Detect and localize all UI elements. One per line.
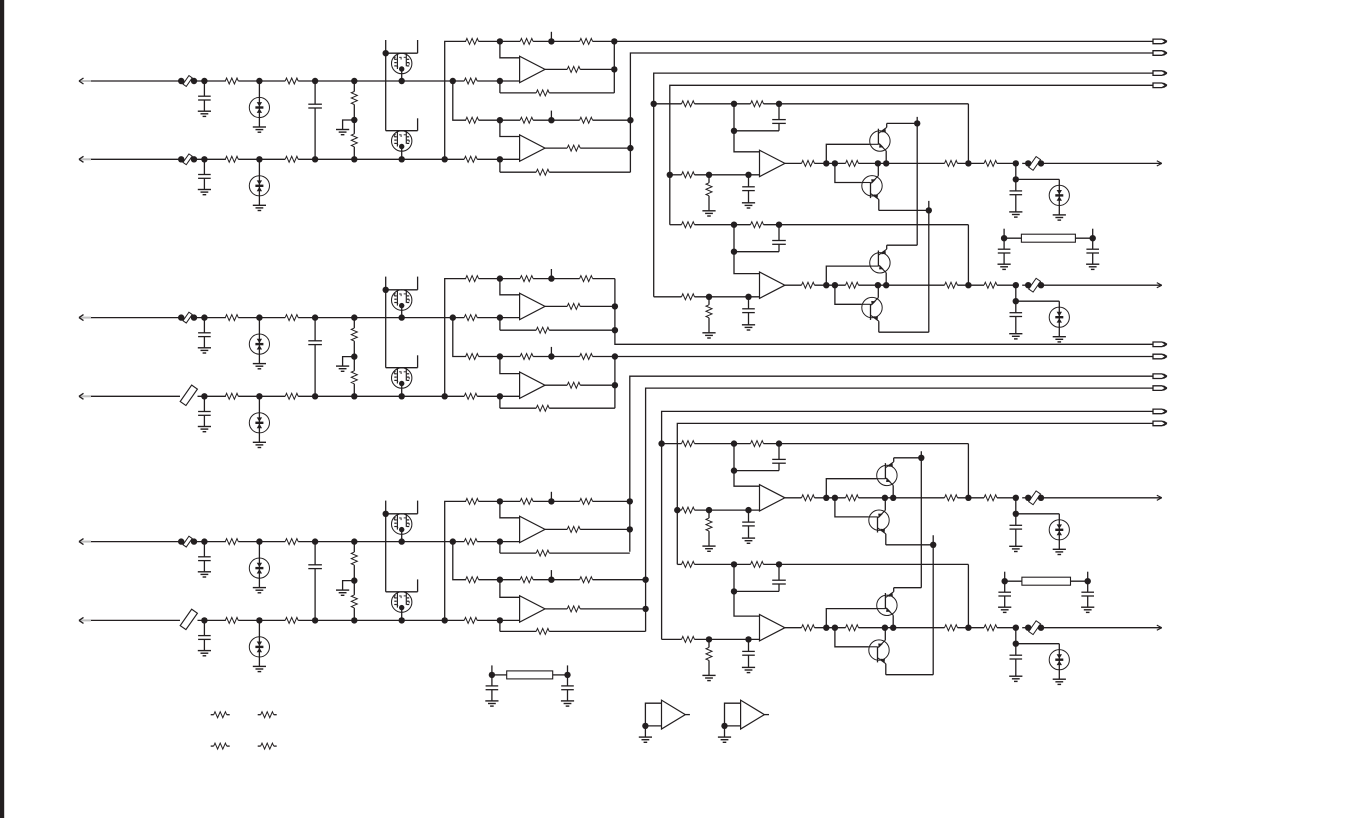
ferrite bead FBoD2 bbox=[1029, 278, 1041, 292]
op-amp UA1 bbox=[520, 56, 545, 82]
diode array DB2 bbox=[256, 393, 262, 399]
wire rail2A a bbox=[479, 119, 520, 121]
wire noninv E2 a bbox=[695, 638, 760, 640]
wire out line D2 bbox=[1041, 284, 1162, 286]
output arrow OUTD2 bbox=[1157, 283, 1162, 286]
capacitor CB1a bbox=[201, 314, 207, 320]
wire fb D2 bbox=[967, 225, 969, 286]
wire out D2 c bbox=[859, 284, 945, 286]
wire inv D1 bbox=[734, 104, 760, 152]
input arrow INB1 bbox=[80, 317, 91, 319]
resistor RE2a bbox=[682, 561, 695, 567]
wire rail D2 a bbox=[695, 224, 751, 226]
wire noninv E1 bbox=[677, 509, 681, 511]
transistor QE2p bbox=[869, 640, 889, 660]
wire C1 seg2 bbox=[238, 541, 285, 543]
resistor RCr1a bbox=[466, 498, 479, 504]
ferrite bead FBA1 bbox=[183, 76, 192, 87]
wire npn rail E bbox=[920, 451, 922, 587]
resistor divider RBd bbox=[351, 314, 357, 320]
wire C2 seg1 bbox=[198, 619, 226, 621]
filter FL1 bbox=[1004, 237, 1021, 239]
wire input line C2 bbox=[91, 619, 180, 621]
connector J7 bbox=[1153, 374, 1166, 379]
resistor RE1o2 bbox=[846, 495, 859, 501]
resistor RC1c bbox=[464, 539, 477, 545]
wire B1 seg3 bbox=[298, 317, 464, 319]
wire out line D1 bbox=[1041, 162, 1162, 164]
wire netB1 bus bbox=[615, 279, 1153, 345]
resistor RC1b bbox=[285, 539, 298, 545]
ferrite bead FBoE1 bbox=[1029, 491, 1041, 505]
wire fb E1 bbox=[967, 444, 969, 498]
capacitor CAx bbox=[312, 78, 318, 84]
resistor RBo1 bbox=[567, 303, 580, 309]
ferrite bead FBA2 bbox=[183, 154, 192, 165]
wire rail2B riser bbox=[450, 314, 456, 320]
resistor RE2o4 bbox=[984, 625, 997, 631]
capacitor CoD2 bbox=[1015, 285, 1017, 301]
wire netE2 bus bbox=[677, 423, 1153, 564]
wire out net D1 bbox=[1013, 160, 1019, 166]
wire netD2 bus bbox=[670, 85, 1153, 224]
wire op1C out bbox=[545, 528, 567, 530]
resistor RCr1b bbox=[520, 498, 533, 504]
wire out E1 c bbox=[859, 497, 945, 499]
mosfet switch QA1 bbox=[385, 40, 387, 53]
wire A1 seg4 bbox=[477, 80, 519, 82]
transistor QD2p bbox=[862, 297, 882, 317]
mosfet switch QB1 bbox=[385, 277, 387, 290]
wire rail1A c bbox=[593, 40, 615, 42]
op-amp UB1 bbox=[520, 293, 545, 319]
resistor divider RCd bbox=[351, 538, 357, 544]
diode array DoE1 bbox=[1016, 513, 1060, 515]
resistor RAr1a bbox=[466, 38, 479, 44]
page border bar bbox=[0, 0, 4, 818]
resistor RD1g bbox=[708, 175, 710, 183]
connector J3 bbox=[1153, 71, 1166, 76]
input arrow INA2 bbox=[80, 158, 91, 160]
capacitor CA1a bbox=[201, 78, 207, 84]
wire out E2 a bbox=[785, 627, 802, 629]
wire inv E2 bbox=[734, 564, 760, 616]
resistor RB2b bbox=[285, 393, 298, 399]
buffer amp U7 bbox=[645, 703, 661, 726]
wire B1 seg1 bbox=[194, 317, 226, 319]
wire noninv D1 bbox=[670, 174, 682, 176]
wire gate bus B bbox=[385, 290, 387, 368]
resistor RCr2a bbox=[466, 577, 479, 583]
wire out D2 b bbox=[815, 284, 846, 286]
wire input line B1 bbox=[91, 317, 181, 319]
resistor RD2b bbox=[751, 222, 764, 228]
wire input line A2 bbox=[91, 158, 181, 160]
resistor RA2c bbox=[464, 156, 477, 162]
wire out net D2 bbox=[1013, 282, 1019, 288]
transistor QD2n bbox=[870, 253, 890, 273]
wire outA1 to connector bbox=[614, 40, 1153, 42]
ferrite bead FBB2 bbox=[180, 385, 197, 405]
wire out D1 a bbox=[785, 162, 802, 164]
resistor RBr2c bbox=[580, 354, 593, 360]
wire out D1 c bbox=[859, 162, 945, 164]
op-amp UC1 bbox=[520, 516, 545, 542]
connector J10 bbox=[1153, 421, 1166, 426]
wire inv D2 bbox=[734, 225, 760, 274]
mosfet switch QA2 bbox=[417, 118, 419, 130]
capacitor CBx bbox=[312, 314, 318, 320]
resistor RA1a bbox=[225, 78, 238, 84]
wire out D1 b bbox=[815, 162, 846, 164]
connector J9 bbox=[1153, 409, 1166, 414]
wire netB2 bus bbox=[614, 357, 616, 409]
connector J4 bbox=[1153, 83, 1166, 88]
resistor RAf2 bbox=[497, 156, 503, 162]
resistor RD2g bbox=[708, 297, 710, 305]
wire rail E1 a bbox=[695, 443, 751, 445]
transistor QE1p bbox=[869, 510, 889, 530]
wire out E2 d bbox=[958, 627, 985, 629]
diode array DC1 bbox=[256, 538, 262, 544]
resistor RD1o1 bbox=[802, 160, 815, 166]
resistor RB1b bbox=[285, 315, 298, 321]
resistor RD1o3 bbox=[945, 160, 958, 166]
resistor RBr2a bbox=[466, 354, 479, 360]
capacitor CE2g bbox=[748, 639, 750, 651]
wire rail D1 bbox=[654, 103, 682, 105]
resistor RAr2c bbox=[580, 117, 593, 123]
resistor RC2c bbox=[464, 617, 477, 623]
wire rail2A riser bbox=[450, 78, 456, 84]
wire rail1B a bbox=[479, 278, 520, 280]
wire B1 seg4 bbox=[477, 317, 519, 319]
resistor RBf2 bbox=[497, 393, 503, 399]
diode array DA1 bbox=[256, 78, 262, 84]
input arrow INC1 bbox=[80, 541, 91, 543]
wire op1A inv bbox=[500, 41, 520, 57]
diode array DoE2 bbox=[1016, 643, 1060, 645]
wire out line E2 bbox=[1041, 627, 1162, 629]
wire rail E1 bbox=[662, 443, 682, 445]
wire C1 seg4 bbox=[477, 541, 519, 543]
op-amp UD2 bbox=[760, 272, 785, 298]
resistor RE2n bbox=[682, 636, 695, 642]
wire C1 seg1 bbox=[194, 541, 226, 543]
resistor RE2b bbox=[751, 561, 764, 567]
wire rail D1 a bbox=[695, 103, 751, 105]
resistor RE1o1 bbox=[802, 495, 815, 501]
wire out E2 e bbox=[997, 627, 1016, 629]
mosfet switch QC1 bbox=[385, 501, 387, 514]
capacitor CD2g bbox=[748, 297, 750, 309]
resistor Rs1 bbox=[211, 714, 214, 716]
wire rail1A riser bbox=[445, 41, 466, 159]
wire rail1A a bbox=[479, 40, 520, 42]
connector J2 bbox=[1153, 51, 1166, 56]
capacitor CC1a bbox=[201, 538, 207, 544]
wire C2 seg4 bbox=[477, 619, 519, 621]
resistor RB1a bbox=[225, 315, 238, 321]
wire netC1 bus bbox=[630, 376, 1153, 552]
ferrite bead FBC2 bbox=[180, 609, 197, 629]
wire rail1A b bbox=[533, 40, 580, 42]
mosfet switch QC2 bbox=[417, 579, 419, 591]
resistor RE2o3 bbox=[945, 625, 958, 631]
capacitor CD1g bbox=[748, 175, 750, 187]
resistor RD1o2 bbox=[846, 160, 859, 166]
wire inv E1 bbox=[734, 444, 760, 487]
wire op2C out2 bbox=[580, 608, 645, 610]
wire out E1 d bbox=[958, 497, 985, 499]
wire rail1B b bbox=[533, 278, 580, 280]
wire fb E2 bbox=[967, 564, 969, 627]
wire rail1B riser bbox=[445, 279, 466, 397]
capacitor CD1f bbox=[778, 104, 780, 120]
resistor Rs4 bbox=[258, 745, 261, 747]
resistor RD1b bbox=[751, 101, 764, 107]
wire B2 seg4 bbox=[477, 395, 519, 397]
wire rail D2 b bbox=[764, 224, 969, 226]
output arrow OUTE2 bbox=[1157, 625, 1162, 628]
connector J1 bbox=[1153, 39, 1166, 44]
resistor RBr2b bbox=[520, 354, 533, 360]
resistor RE1g bbox=[708, 510, 710, 518]
capacitor CCx bbox=[312, 538, 318, 544]
transistor QD1n bbox=[870, 131, 890, 151]
diode array DB1 bbox=[256, 314, 262, 320]
diode array DoD2 bbox=[1016, 300, 1060, 302]
wire input line B2 bbox=[91, 395, 180, 397]
wire noninv D1 a bbox=[695, 174, 760, 176]
resistor RE2o1 bbox=[802, 625, 815, 631]
resistor RAr1c bbox=[580, 38, 593, 44]
wire rail2C b bbox=[533, 579, 580, 581]
resistor RBr1a bbox=[466, 276, 479, 282]
resistor RCf2 bbox=[497, 617, 503, 623]
ferrite bead FBoE2 bbox=[1029, 621, 1041, 635]
resistor RC1a bbox=[225, 539, 238, 545]
wire op2A inv bbox=[500, 120, 520, 136]
wire out D2 d bbox=[958, 284, 985, 286]
op-amp UE1 bbox=[760, 485, 785, 511]
diode array DoD1 bbox=[1016, 178, 1060, 180]
wire B2 seg1 bbox=[198, 395, 226, 397]
resistor RB2c bbox=[464, 393, 477, 399]
output arrow OUTE1 bbox=[1157, 495, 1162, 498]
op-amp UE2 bbox=[760, 615, 785, 641]
wire pnp rail D bbox=[928, 201, 930, 332]
resistor RCo2 bbox=[567, 606, 580, 612]
op-amp UA2 bbox=[520, 135, 545, 161]
resistor RAo1 bbox=[567, 66, 580, 72]
capacitor CoD1 bbox=[1015, 163, 1017, 179]
resistor RE1a bbox=[682, 441, 695, 447]
op-amp UD1 bbox=[760, 150, 785, 176]
resistor RBo2 bbox=[567, 382, 580, 388]
resistor RA2a bbox=[225, 156, 238, 162]
capacitor CA2a bbox=[201, 156, 207, 162]
wire op1C inv bbox=[500, 501, 520, 517]
resistor RE1n bbox=[682, 507, 695, 513]
connector J5 bbox=[1153, 342, 1166, 347]
resistor RC2a bbox=[225, 617, 238, 623]
resistor RE2o2 bbox=[846, 625, 859, 631]
capacitor CB2a bbox=[201, 393, 207, 399]
wire rail2C c bbox=[593, 579, 646, 581]
wire netA2 bus bbox=[630, 53, 1153, 172]
op-amp UC2 bbox=[520, 596, 545, 622]
resistor RCo1 bbox=[567, 526, 580, 532]
wire out line E1 bbox=[1041, 497, 1162, 499]
wire rail2C riser bbox=[450, 538, 456, 544]
resistor RE1o3 bbox=[945, 495, 958, 501]
wire op1C out2 bbox=[580, 528, 630, 530]
wire netA1 bus bbox=[613, 41, 615, 93]
resistor RBf1 bbox=[497, 314, 503, 320]
wire B2 seg3 bbox=[298, 395, 464, 397]
wire rail2B a bbox=[479, 356, 520, 358]
resistor Rs3 bbox=[211, 745, 214, 747]
wire B1 seg2 bbox=[238, 317, 285, 319]
wire input line A1 bbox=[91, 80, 181, 82]
resistor RA1b bbox=[285, 78, 298, 84]
connector J8 bbox=[1153, 386, 1166, 391]
wire out D2 e bbox=[997, 284, 1016, 286]
wire op2A out2 bbox=[580, 147, 630, 149]
wire netC2 bus bbox=[646, 388, 1153, 631]
wire C2 seg3 bbox=[298, 619, 464, 621]
wire op2C inv bbox=[500, 580, 520, 598]
wire out E1 a bbox=[785, 497, 802, 499]
op-amp UB2 bbox=[520, 372, 545, 398]
filter FL2 bbox=[1005, 580, 1022, 582]
wire rail1C a bbox=[479, 500, 520, 502]
wire out net E2 bbox=[1013, 625, 1019, 631]
wire npn rail D bbox=[916, 117, 918, 245]
resistor RCr1c bbox=[580, 498, 593, 504]
wire op1A out2 bbox=[580, 68, 614, 70]
resistor RD2a bbox=[682, 222, 695, 228]
resistor RD1o4 bbox=[984, 160, 997, 166]
transistor QD1p bbox=[862, 176, 882, 196]
resistor RBr1b bbox=[520, 276, 533, 282]
resistor RAf1 bbox=[497, 78, 503, 84]
wire rail2A c bbox=[593, 119, 631, 121]
wire op2B out bbox=[545, 384, 567, 386]
wire C1 seg3 bbox=[298, 541, 464, 543]
wire A1 seg1 bbox=[194, 80, 226, 82]
mosfet switch QB2 bbox=[417, 355, 419, 367]
wire rail E2 b bbox=[764, 563, 969, 565]
wire netD1 bus bbox=[654, 73, 1153, 297]
wire A2 seg1 bbox=[194, 158, 226, 160]
wire op1B out bbox=[545, 305, 567, 307]
transistor QE1n bbox=[877, 465, 897, 485]
ferrite bead FBoD1 bbox=[1029, 157, 1041, 171]
wire op2B out2 bbox=[580, 384, 615, 386]
wire rail E2 bbox=[677, 563, 681, 565]
wire fb D1 bbox=[967, 104, 969, 164]
wire rail2A b bbox=[533, 119, 580, 121]
resistor RB1c bbox=[464, 315, 477, 321]
resistor RB2a bbox=[225, 393, 238, 399]
diode array DC2 bbox=[256, 617, 262, 623]
wire out E2 b bbox=[815, 627, 846, 629]
resistor divider RAd bbox=[351, 78, 357, 84]
resistor RCr2c bbox=[580, 577, 593, 583]
connector J6 bbox=[1153, 354, 1166, 359]
wire rail E2 a bbox=[695, 563, 751, 565]
capacitor CE1f bbox=[778, 444, 780, 460]
wire rail1B c bbox=[593, 278, 615, 280]
resistor RA2b bbox=[285, 156, 298, 162]
wire noninv D2 bbox=[654, 296, 682, 298]
ferrite bead FBB1 bbox=[183, 312, 192, 323]
wire C2 seg2 bbox=[238, 619, 285, 621]
input arrow INB2 bbox=[80, 395, 91, 397]
wire op2A out bbox=[545, 147, 567, 149]
wire out E1 b bbox=[815, 497, 846, 499]
resistor RAr2a bbox=[466, 117, 479, 123]
input arrow INA1 bbox=[80, 80, 91, 82]
resistor RA1c bbox=[464, 78, 477, 84]
wire netE1 bus bbox=[662, 411, 1153, 639]
wire out net E1 bbox=[1013, 495, 1019, 501]
capacitor CoE2 bbox=[1015, 628, 1017, 644]
capacitor CD2f bbox=[778, 225, 780, 241]
capacitor CE1g bbox=[748, 510, 750, 522]
resistor RE2g bbox=[708, 639, 710, 647]
buffer amp U8 bbox=[725, 703, 741, 726]
wire out E2 c bbox=[859, 627, 945, 629]
wire op1A out bbox=[545, 68, 567, 70]
resistor RC2b bbox=[285, 617, 298, 623]
wire rail1C b bbox=[533, 500, 580, 502]
wire op1B out2 bbox=[580, 305, 615, 307]
resistor RD2o3 bbox=[945, 282, 958, 288]
wire B2 seg2 bbox=[238, 395, 285, 397]
wire noninv D2 a bbox=[695, 296, 760, 298]
wire input line C1 bbox=[91, 541, 181, 543]
wire rail1C riser bbox=[445, 501, 466, 620]
wire gate bus C bbox=[385, 514, 387, 592]
resistor RAr1b bbox=[520, 38, 533, 44]
wire op2B inv bbox=[500, 357, 520, 374]
resistor RD2o2 bbox=[846, 282, 859, 288]
resistor RE1b bbox=[751, 441, 764, 447]
output arrow OUTD1 bbox=[1157, 161, 1162, 164]
resistor RE1o4 bbox=[984, 495, 997, 501]
capacitor CC2a bbox=[201, 617, 207, 623]
input arrow INC2 bbox=[80, 619, 91, 621]
resistor RAr2b bbox=[520, 117, 533, 123]
wire rail2B c bbox=[593, 356, 615, 358]
capacitor CoE1 bbox=[1015, 498, 1017, 514]
resistor RCf1 bbox=[497, 538, 503, 544]
filter FL3 bbox=[492, 674, 507, 676]
wire A2 seg4 bbox=[477, 158, 519, 160]
resistor RAo2 bbox=[567, 145, 580, 151]
wire op2C out bbox=[545, 608, 567, 610]
wire rail2B b bbox=[533, 356, 580, 358]
wire op1B inv bbox=[500, 279, 520, 295]
wire noninv E1 a bbox=[695, 509, 760, 511]
resistor Rs2 bbox=[258, 714, 261, 716]
wire out D1 d bbox=[958, 162, 985, 164]
wire rail1C c bbox=[593, 500, 630, 502]
wire A1 seg3 bbox=[298, 80, 464, 82]
